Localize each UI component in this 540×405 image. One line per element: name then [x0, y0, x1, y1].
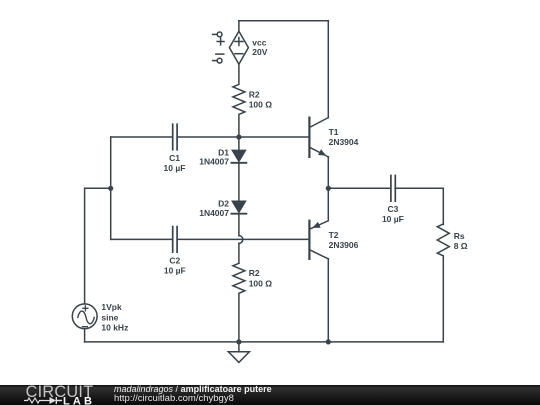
- node output junction: [326, 186, 331, 191]
- terminal - (vcc): [213, 54, 224, 63]
- node ground junction: [236, 339, 241, 344]
- svg-text:1N4007: 1N4007: [199, 156, 229, 166]
- transistor T1 2N3904: [309, 118, 328, 157]
- logo diode: [45, 399, 50, 401]
- svg-text:10 µF: 10 µF: [382, 214, 404, 224]
- svg-text:Rs: Rs: [454, 231, 465, 241]
- svg-text:1Vpk: 1Vpk: [101, 302, 122, 312]
- logo resistor: [24, 398, 45, 403]
- node junction input tap: [108, 186, 113, 191]
- resistor Rs: [437, 224, 449, 342]
- capacitor C3: [391, 176, 395, 202]
- svg-text:10 µF: 10 µF: [164, 266, 186, 276]
- source V1 sine: [72, 304, 97, 329]
- wire input tap: [85, 188, 111, 304]
- capacitor C2: [173, 227, 177, 253]
- svg-text:C3: C3: [387, 204, 398, 214]
- svg-text:1N4007: 1N4007: [199, 208, 229, 218]
- svg-text:2N3904: 2N3904: [329, 137, 359, 147]
- wire D2 to hop: [238, 214, 240, 236]
- resistor R2 bottom: [233, 263, 245, 342]
- svg-text:T1: T1: [329, 127, 339, 137]
- wire bottom rail: [85, 341, 444, 343]
- footer bar: [0, 385, 540, 405]
- diode D2: [231, 201, 246, 213]
- wire T2 collector drop: [327, 259, 329, 342]
- svg-text:100 Ω: 100 Ω: [249, 278, 273, 288]
- terminal + (vcc): [213, 32, 224, 45]
- svg-text:sine: sine: [101, 312, 118, 322]
- wire hop to R2 bottom: [238, 243, 240, 263]
- wire T1 collector drop: [327, 21, 329, 118]
- wire base2 right segment: [177, 238, 309, 240]
- ground: [228, 342, 249, 363]
- wire base2 left segment: [111, 238, 173, 240]
- wire base1 left segment: [111, 136, 173, 138]
- wire vcc top lead: [238, 21, 240, 32]
- svg-text:10 µF: 10 µF: [164, 163, 186, 173]
- svg-text:2N3906: 2N3906: [329, 240, 359, 250]
- svg-text:T2: T2: [329, 230, 339, 240]
- capacitor C1: [173, 124, 177, 150]
- wire output to C3: [328, 187, 390, 189]
- node junction base1/R2/D1: [236, 134, 241, 139]
- wire left rail: [110, 137, 112, 239]
- transistor T2 2N3906: [309, 221, 328, 259]
- wire right rail top: [442, 188, 444, 224]
- diode D1: [231, 150, 246, 201]
- svg-text:20V: 20V: [252, 47, 267, 57]
- svg-text:100 Ω: 100 Ω: [249, 100, 273, 110]
- svg-text:10 kHz: 10 kHz: [101, 322, 128, 332]
- voltage source VCC: [229, 31, 248, 64]
- svg-text:8 Ω: 8 Ω: [454, 241, 468, 251]
- svg-text:R2: R2: [249, 89, 260, 99]
- svg-text:C2: C2: [169, 256, 180, 266]
- wire base1 right segment: [177, 136, 309, 138]
- wire hop over base2: [239, 236, 243, 244]
- node T2 collector junction: [326, 339, 331, 344]
- wire top rail: [239, 20, 328, 22]
- wire node to T2 emitter: [327, 188, 329, 220]
- svg-text:LAB: LAB: [63, 395, 92, 405]
- svg-text:C1: C1: [169, 153, 180, 163]
- resistor R2 top: [233, 64, 245, 137]
- wire T1 emitter to node: [327, 157, 329, 188]
- wire source bottom: [84, 329, 86, 342]
- wire junction to D1: [238, 137, 240, 150]
- wire C3 to right rail: [395, 187, 443, 189]
- svg-text:R2: R2: [249, 268, 260, 278]
